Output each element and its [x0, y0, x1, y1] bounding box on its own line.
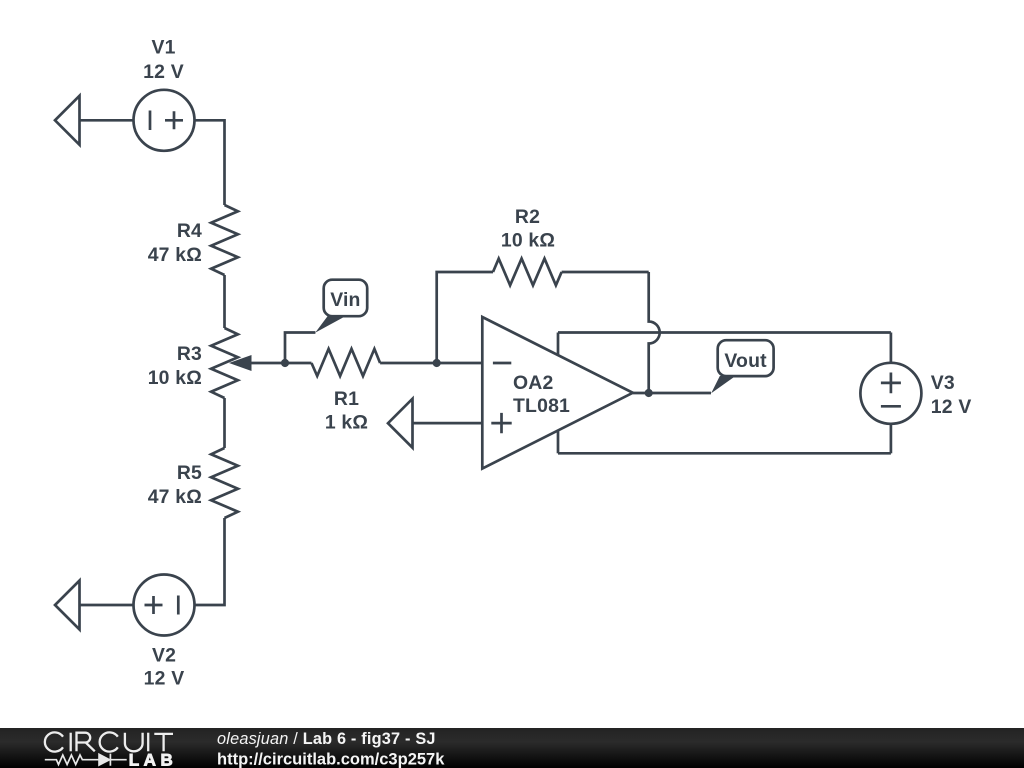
- wire op-amp output: [633, 392, 711, 395]
- wire R5 to V2: [195, 518, 225, 605]
- svg-text:R2: R2: [515, 206, 540, 228]
- CircuitLab logo wordmark CIRCUIT: [45, 732, 173, 751]
- wire feedback down with hop over supply rail: [649, 272, 660, 393]
- op-amp OA2: [482, 317, 633, 469]
- wire V3 top leg: [890, 333, 893, 363]
- junction at output: [645, 389, 653, 397]
- resistor R5: [211, 448, 238, 518]
- wire bottom supply rail: [558, 452, 891, 455]
- svg-text:Vin: Vin: [330, 289, 360, 311]
- svg-text:R5: R5: [177, 462, 202, 484]
- resistor R4: [211, 205, 238, 275]
- ground (bottom left): [55, 581, 80, 630]
- svg-text:R1: R1: [334, 388, 359, 410]
- svg-text:10 kΩ: 10 kΩ: [148, 367, 202, 389]
- svg-text:Vout: Vout: [724, 350, 767, 372]
- wire top supply rail: [558, 331, 891, 334]
- wire op-amp V- stub: [557, 430, 560, 453]
- wire node up to Vin tail: [285, 333, 315, 364]
- flag Vin: [315, 280, 367, 333]
- resistor R2: [493, 259, 562, 286]
- svg-text:12 V: 12 V: [931, 396, 972, 418]
- svg-text:V3: V3: [931, 372, 955, 394]
- svg-text:10 kΩ: 10 kΩ: [501, 229, 555, 251]
- wire R2 to feedback right leg: [562, 271, 649, 274]
- wire node to op-amp minus input: [437, 362, 483, 365]
- svg-text:LAB: LAB: [129, 750, 177, 768]
- svg-text:OA2: OA2: [513, 372, 553, 394]
- resistor R1: [312, 349, 381, 376]
- wire wiper to node: [234, 362, 285, 365]
- svg-text:V2: V2: [152, 645, 176, 667]
- wire V3 bottom leg: [890, 424, 893, 454]
- svg-text:R4: R4: [177, 220, 202, 242]
- wire node to R1: [285, 362, 312, 365]
- CircuitLab logo resistor-diode glyph: [45, 754, 127, 766]
- wire ground to V1: [80, 119, 134, 122]
- svg-text:12 V: 12 V: [143, 61, 184, 83]
- svg-text:TL081: TL081: [513, 395, 570, 417]
- wire feedback left leg: [437, 272, 493, 363]
- voltage source V1: [134, 90, 195, 151]
- potentiometer R3: [211, 328, 251, 398]
- junction at wiper node: [281, 359, 289, 367]
- svg-text:12 V: 12 V: [144, 668, 185, 690]
- ground (non-inverting input): [388, 399, 413, 448]
- junction at inverting input: [433, 359, 441, 367]
- voltage source V3: [860, 363, 921, 424]
- wire V2 to ground: [80, 604, 134, 607]
- wire op-amp V+ stub: [557, 333, 560, 357]
- voltage source V2: [134, 575, 195, 636]
- svg-text:47 kΩ: 47 kΩ: [148, 486, 202, 508]
- svg-text:oleasjuan / Lab 6 - fig37 - SJ: oleasjuan / Lab 6 - fig37 - SJ: [217, 730, 436, 748]
- svg-text:47 kΩ: 47 kΩ: [148, 244, 202, 266]
- svg-text:R3: R3: [177, 343, 202, 365]
- svg-text:http://circuitlab.com/c3p257k: http://circuitlab.com/c3p257k: [217, 751, 445, 768]
- wire V1 to R4: [195, 120, 225, 205]
- ground (top left): [55, 96, 80, 145]
- flag Vout: [711, 340, 773, 393]
- wire R3 to R5: [223, 398, 226, 448]
- wire R1 to inverting node: [380, 362, 437, 365]
- svg-text:1 kΩ: 1 kΩ: [325, 412, 368, 434]
- svg-text:V1: V1: [151, 37, 175, 59]
- wire ground to op-amp plus input: [413, 422, 483, 425]
- wire R4 to R3: [223, 275, 226, 328]
